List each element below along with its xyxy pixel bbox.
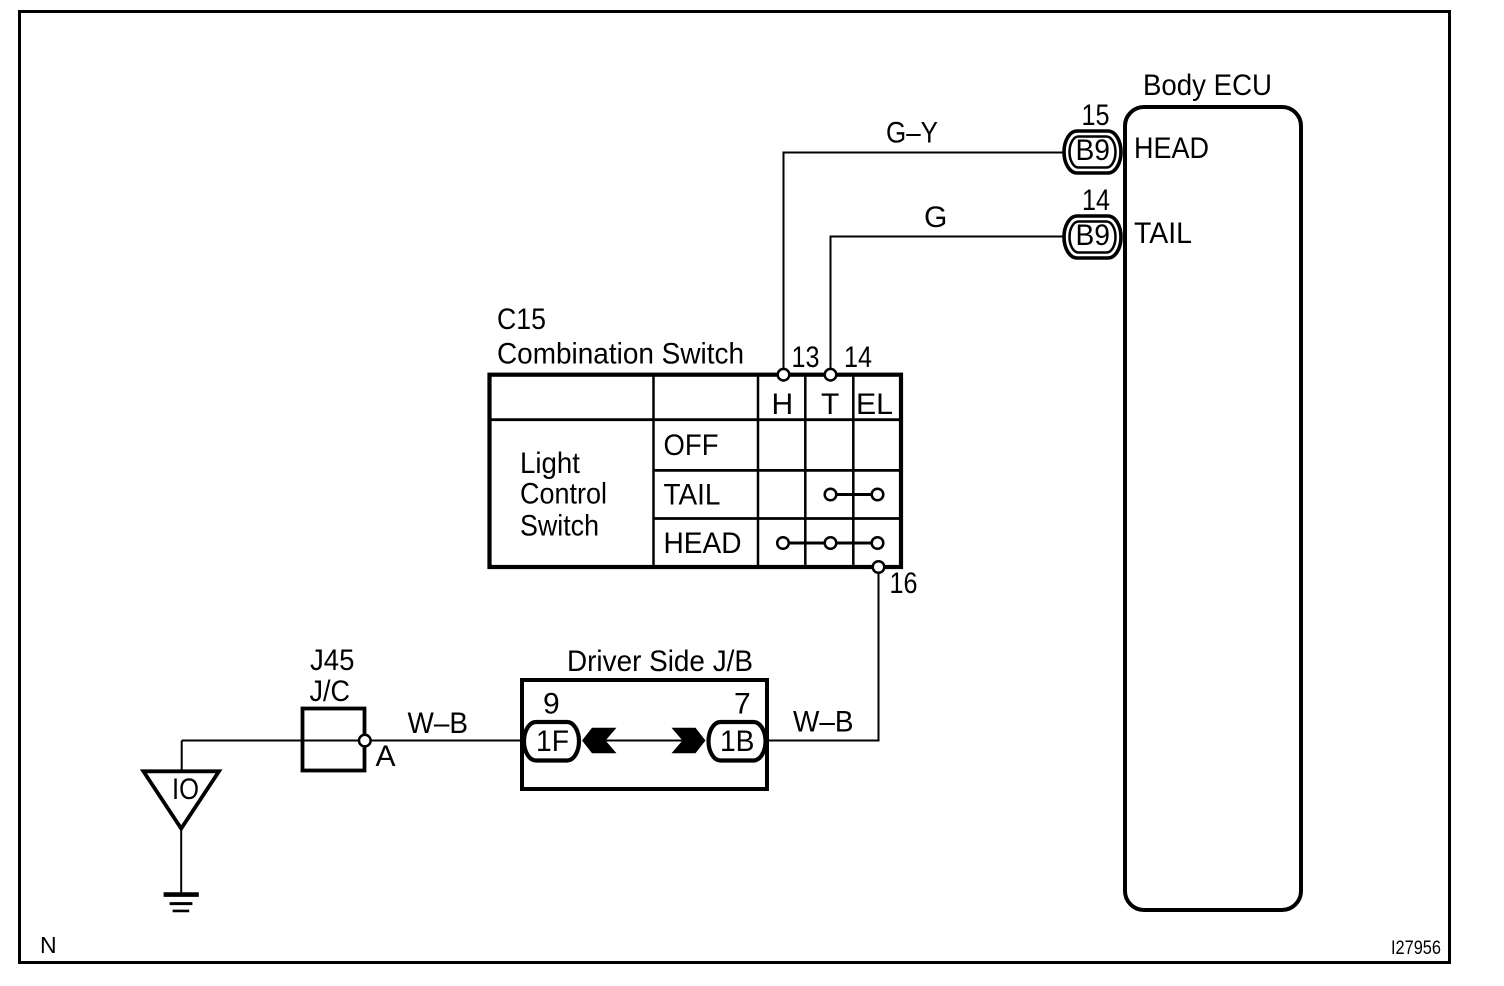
- svg-text:Combination Switch: Combination Switch: [497, 338, 744, 371]
- wire to ground triangle: [181, 741, 183, 772]
- svg-text:N: N: [40, 932, 57, 958]
- svg-text:16: 16: [890, 567, 918, 600]
- svg-text:G: G: [924, 201, 947, 234]
- svg-text:TAIL: TAIL: [664, 479, 721, 512]
- svg-text:Control: Control: [520, 478, 607, 511]
- wire triangle to ground: [180, 829, 182, 893]
- svg-text:Body ECU: Body ECU: [1143, 69, 1272, 102]
- svg-text:W–B: W–B: [408, 707, 469, 740]
- connector 1F pin 9: [524, 722, 579, 761]
- svg-text:EL: EL: [856, 388, 893, 421]
- svg-text:14: 14: [844, 341, 872, 374]
- connector 1B pin 7: [709, 722, 766, 761]
- svg-text:J45: J45: [310, 644, 355, 677]
- ground symbol: [164, 895, 199, 911]
- node A: [359, 735, 371, 747]
- svg-text:Light: Light: [520, 447, 581, 480]
- svg-text:HEAD: HEAD: [664, 527, 742, 560]
- svg-text:G–Y: G–Y: [886, 117, 938, 150]
- svg-text:A: A: [376, 740, 396, 773]
- terminal pin 13: [778, 369, 790, 381]
- svg-text:OFF: OFF: [664, 429, 719, 462]
- wire W-B (node A to 1F): [182, 740, 521, 742]
- svg-text:TAIL: TAIL: [1134, 217, 1192, 250]
- svg-text:Switch: Switch: [520, 510, 599, 543]
- combination switch table C15: [490, 375, 902, 567]
- switch contact TAIL row (T-EL): [825, 489, 884, 501]
- wire between arrows: [600, 740, 690, 742]
- terminal pin 16: [873, 561, 885, 573]
- svg-text:IO: IO: [172, 773, 199, 806]
- svg-text:W–B: W–B: [793, 706, 854, 739]
- svg-text:1B: 1B: [720, 725, 755, 758]
- svg-text:1F: 1F: [536, 725, 569, 758]
- svg-text:I27956: I27956: [1391, 938, 1441, 959]
- switch contact HEAD row (H-T-EL): [777, 537, 883, 549]
- svg-text:C15: C15: [497, 303, 546, 336]
- svg-text:14: 14: [1082, 184, 1110, 217]
- svg-text:15: 15: [1082, 99, 1110, 132]
- svg-text:9: 9: [543, 688, 560, 721]
- connector B9 pin 15 (HEAD): [1064, 131, 1121, 173]
- wire G-Y (pin13 to B9 HEAD): [784, 153, 1064, 376]
- terminal pin 14: [825, 369, 837, 381]
- svg-text:J/C: J/C: [310, 675, 351, 708]
- ECU box: Body ECU: [1125, 107, 1301, 910]
- junction connector J45 J/C box: [303, 709, 365, 771]
- svg-text:Driver Side J/B: Driver Side J/B: [567, 645, 753, 678]
- svg-text:H: H: [772, 388, 794, 421]
- svg-text:T: T: [821, 388, 839, 421]
- ground triangle IO: [143, 771, 219, 828]
- svg-text:B9: B9: [1076, 134, 1111, 167]
- svg-text:7: 7: [734, 688, 751, 721]
- arrow right (toward 1B): [672, 728, 706, 753]
- junction block box Driver Side J/B: [522, 680, 767, 789]
- connector B9 pin 14 (TAIL): [1064, 216, 1121, 258]
- row label Light Control Switch: [520, 447, 607, 543]
- arrow left (toward 1F): [582, 728, 617, 753]
- wire W-B (pin16 down to 1B): [768, 567, 879, 741]
- wire G (pin14 to B9 TAIL): [831, 237, 1064, 376]
- svg-text:HEAD: HEAD: [1134, 132, 1209, 165]
- svg-text:13: 13: [792, 341, 820, 374]
- svg-text:B9: B9: [1076, 219, 1111, 252]
